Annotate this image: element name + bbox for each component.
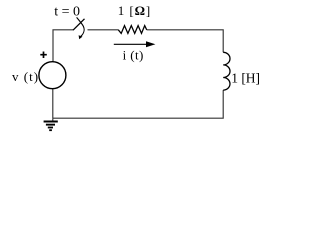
svg-text:t = 0: t = 0	[54, 4, 80, 19]
svg-text:i (t): i (t)	[123, 47, 144, 62]
svg-text:v (t): v (t)	[12, 69, 39, 84]
svg-text:1 [H]: 1 [H]	[231, 70, 260, 85]
svg-text:1 [Ω]: 1 [Ω]	[118, 3, 151, 18]
